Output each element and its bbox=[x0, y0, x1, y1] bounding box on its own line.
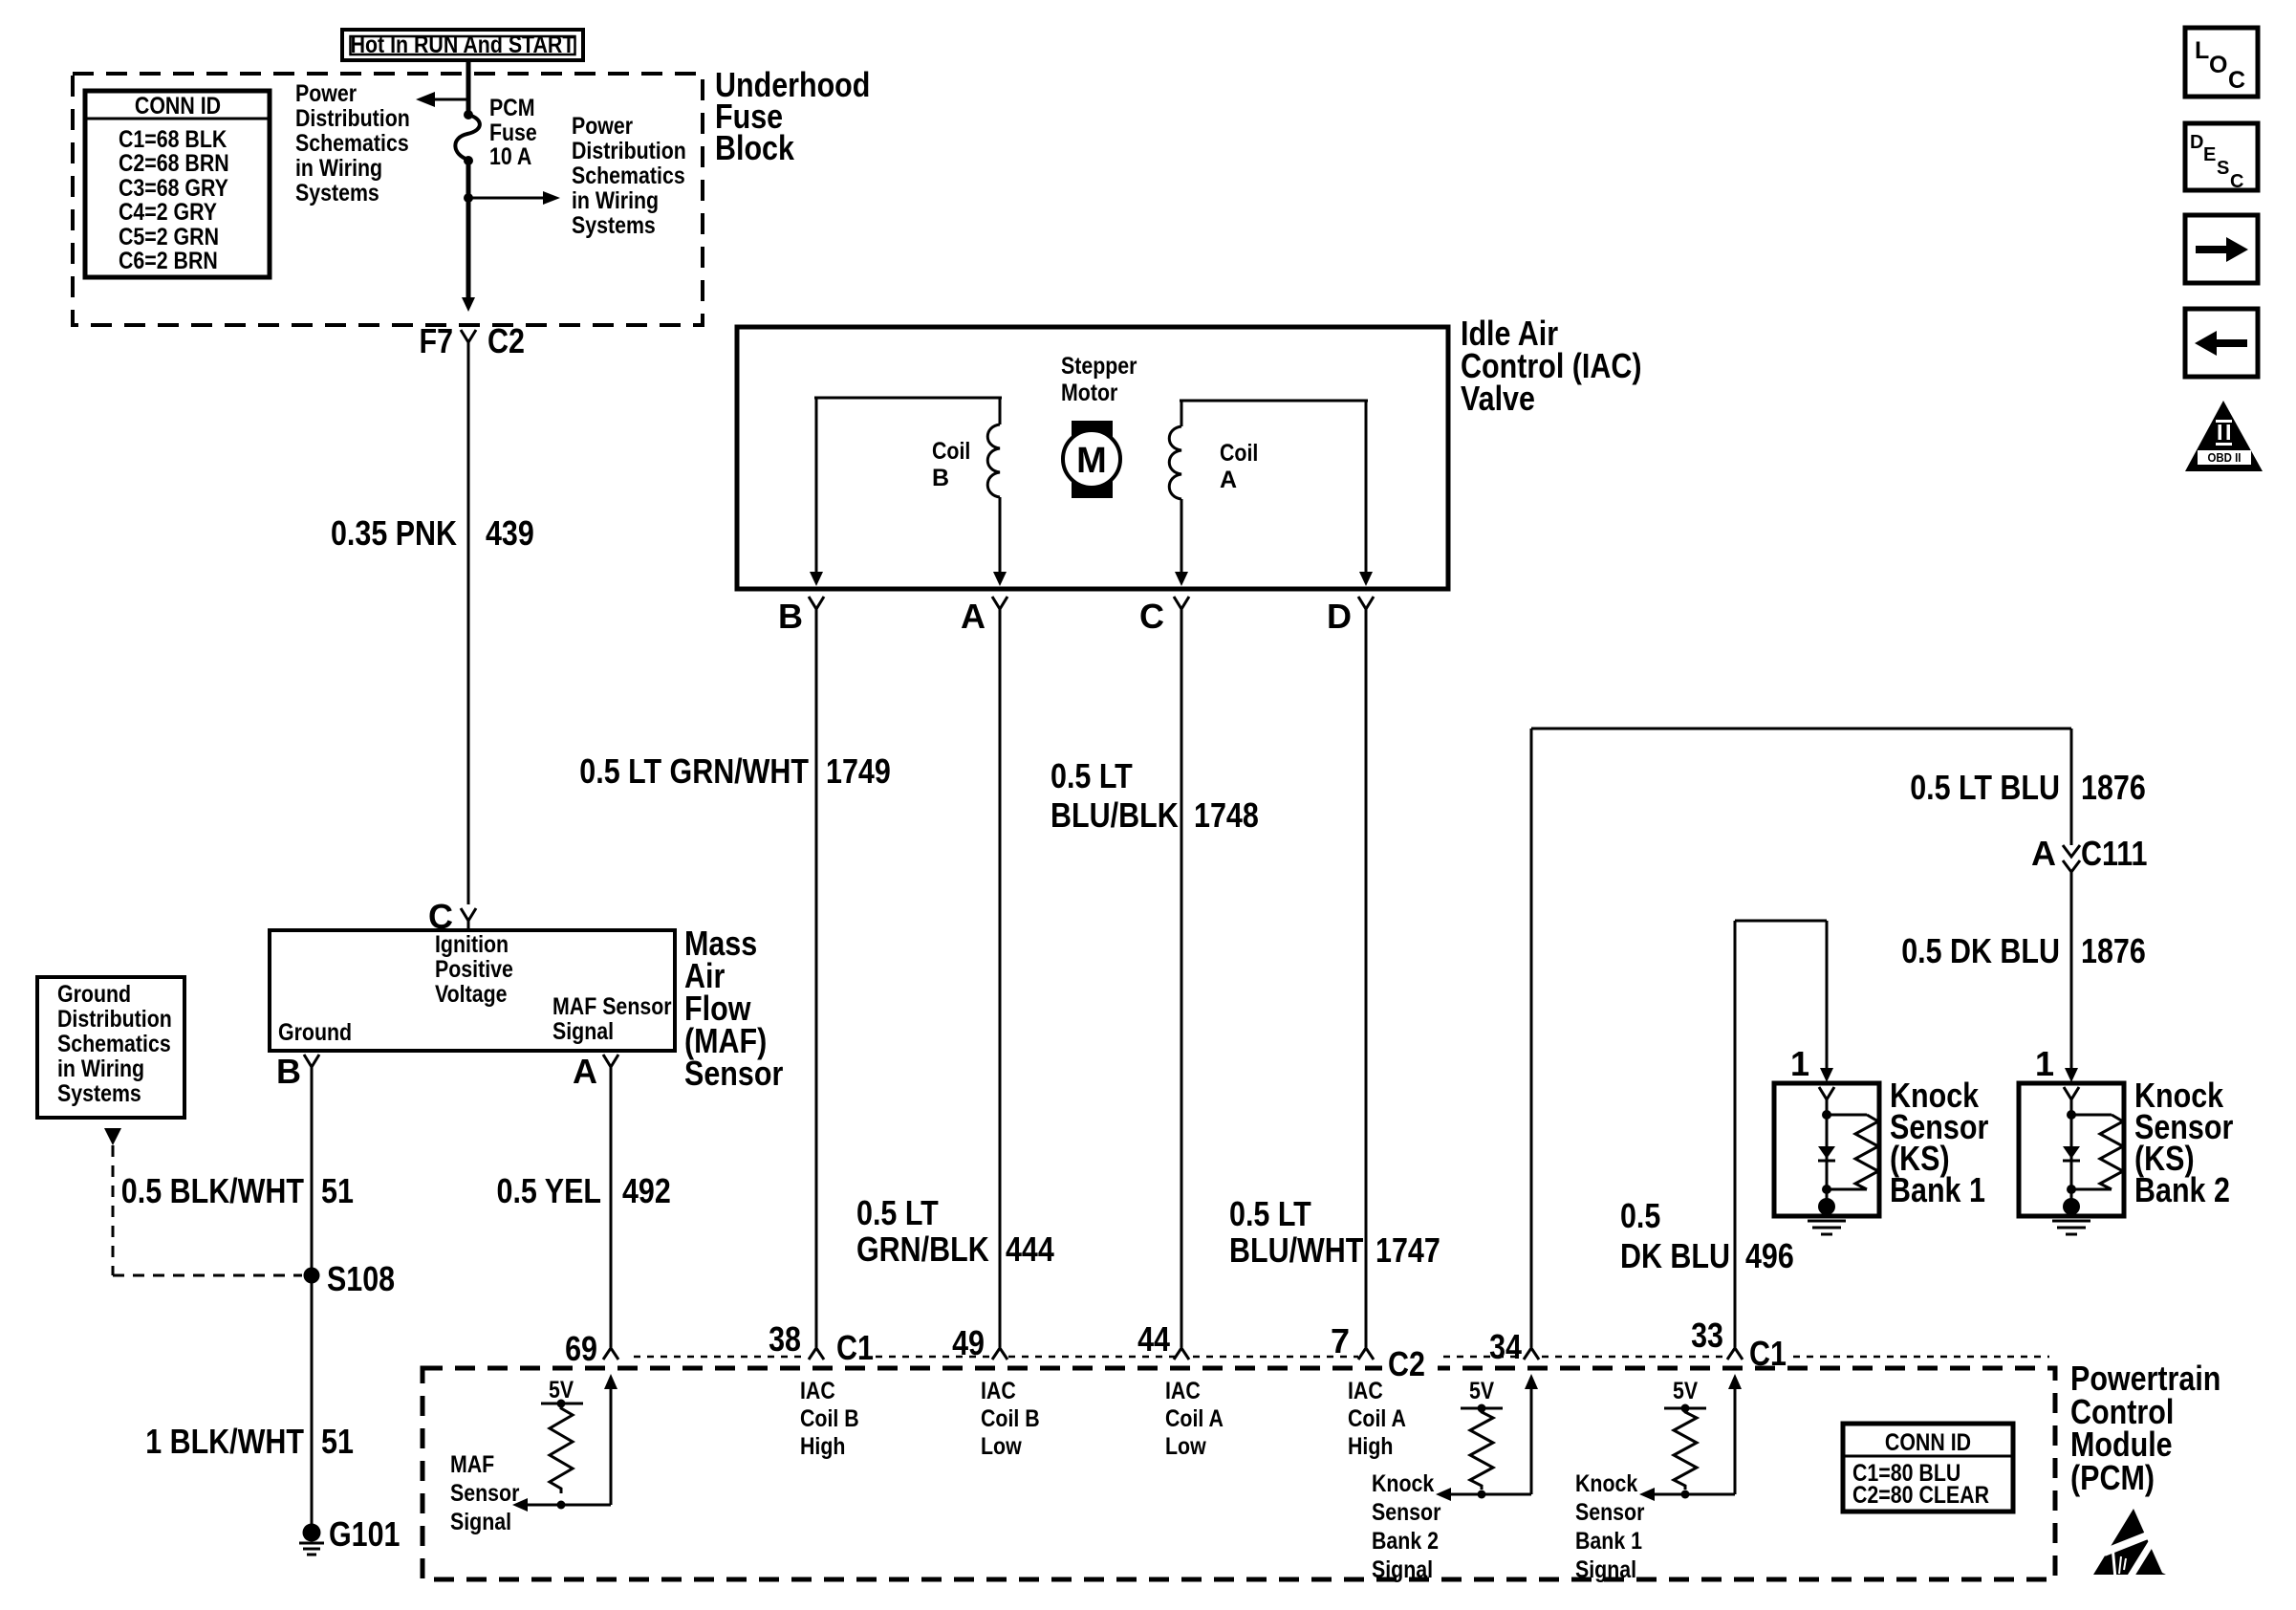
svg-text:51: 51 bbox=[321, 1171, 354, 1210]
svg-text:Systems: Systems bbox=[295, 180, 379, 207]
svg-text:High: High bbox=[1348, 1433, 1393, 1460]
label Underhood Fuse Block bbox=[715, 65, 870, 167]
svg-text:Positive: Positive bbox=[435, 956, 513, 983]
svg-text:Bank 2: Bank 2 bbox=[2134, 1170, 2230, 1209]
svg-text:A: A bbox=[573, 1052, 597, 1091]
svg-text:0.5 LT BLU: 0.5 LT BLU bbox=[1910, 768, 2060, 807]
svg-text:Voltage: Voltage bbox=[435, 981, 508, 1008]
DESC icon bbox=[2185, 123, 2258, 192]
svg-text:in Wiring: in Wiring bbox=[572, 187, 659, 214]
svg-text:Distribution: Distribution bbox=[295, 105, 410, 132]
CONN ID table (fuse block) bbox=[85, 91, 270, 277]
wire PCM 33 to KS bank 1: 0.5 DK BLU 496 bbox=[1735, 921, 1833, 1347]
wire 0.35 PNK 439 bbox=[467, 352, 470, 904]
triangle pointer bbox=[104, 1128, 121, 1145]
wire IAC B to PCM 38: 0.5 LT GRN/WHT 1749 bbox=[815, 618, 818, 1347]
wire MAF A to PCM 69: 0.5 YEL 492 bbox=[610, 1076, 613, 1347]
wire: branch left with arrow bbox=[416, 92, 468, 107]
svg-text:496: 496 bbox=[1745, 1236, 1794, 1275]
svg-text:Distribution: Distribution bbox=[572, 138, 686, 164]
svg-text:E: E bbox=[2203, 144, 2216, 165]
svg-text:1 BLK/WHT: 1 BLK/WHT bbox=[145, 1422, 304, 1461]
dashed wire to S108 bbox=[112, 1145, 115, 1275]
label Knock Sensor (KS) Bank 1 bbox=[1890, 1076, 1988, 1209]
svg-text:Valve: Valve bbox=[1461, 379, 1535, 418]
svg-text:44: 44 bbox=[1137, 1319, 1170, 1359]
svg-text:IAC: IAC bbox=[1165, 1378, 1201, 1404]
svg-text:Low: Low bbox=[981, 1433, 1022, 1460]
svg-text:439: 439 bbox=[486, 513, 534, 553]
svg-text:OBD II: OBD II bbox=[2208, 450, 2242, 465]
fuse PCM Fuse 10 A bbox=[455, 95, 537, 170]
svg-text:Bank 2: Bank 2 bbox=[1372, 1528, 1439, 1555]
svg-text:Systems: Systems bbox=[57, 1080, 141, 1107]
svg-text:Sensor: Sensor bbox=[1575, 1499, 1645, 1526]
splice S108 bbox=[304, 1268, 320, 1284]
svg-text:B: B bbox=[276, 1052, 301, 1091]
label IAC Coil A Low bbox=[1165, 1378, 1224, 1460]
svg-text:69: 69 bbox=[565, 1329, 597, 1368]
svg-text:GRN/BLK: GRN/BLK bbox=[856, 1229, 989, 1269]
ESD sensitive symbol bbox=[2093, 1509, 2166, 1579]
svg-text:in Wiring: in Wiring bbox=[295, 155, 382, 182]
svg-text:B: B bbox=[778, 597, 803, 636]
svg-text:Coil: Coil bbox=[932, 438, 970, 465]
svg-text:5V: 5V bbox=[1469, 1378, 1494, 1404]
svg-text:C5=2 GRN: C5=2 GRN bbox=[119, 224, 219, 250]
left arrow icon bbox=[2185, 309, 2258, 377]
label IAC Coil A High bbox=[1348, 1378, 1406, 1460]
svg-text:C: C bbox=[2228, 67, 2245, 94]
Underhood Fuse Block dashed box bbox=[73, 74, 703, 325]
wire: main feed from Hot box down bbox=[466, 61, 471, 114]
svg-text:0.5 LT: 0.5 LT bbox=[1229, 1194, 1311, 1233]
svg-text:0.35 PNK: 0.35 PNK bbox=[331, 513, 457, 553]
Hot In RUN And START callout box bbox=[342, 30, 583, 60]
svg-text:492: 492 bbox=[622, 1171, 671, 1210]
ground G101 bbox=[299, 1514, 401, 1555]
svg-text:Coil A: Coil A bbox=[1165, 1405, 1224, 1432]
svg-text:Fuse: Fuse bbox=[489, 120, 537, 146]
svg-text:B: B bbox=[932, 465, 949, 491]
svg-text:C1=68 BLK: C1=68 BLK bbox=[119, 126, 227, 153]
svg-text:Sensor: Sensor bbox=[684, 1054, 783, 1093]
svg-text:Signal: Signal bbox=[1372, 1556, 1433, 1583]
svg-text:D: D bbox=[1327, 597, 1352, 636]
svg-text:Power: Power bbox=[295, 80, 357, 107]
svg-text:1876: 1876 bbox=[2081, 931, 2146, 970]
svg-text:MAF Sensor: MAF Sensor bbox=[552, 993, 672, 1020]
svg-text:D: D bbox=[2190, 132, 2203, 153]
svg-text:7: 7 bbox=[1331, 1321, 1350, 1360]
OBD II icon bbox=[2185, 401, 2263, 471]
svg-text:Schematics: Schematics bbox=[572, 163, 685, 189]
label Power Distribution Schematics in Wiring Systems (left) bbox=[295, 80, 410, 207]
svg-text:MAF: MAF bbox=[450, 1451, 494, 1478]
wire IAC D to PCM 7: 0.5 LT BLU/WHT 1747 bbox=[1365, 618, 1368, 1347]
connector C into MAF bbox=[428, 897, 476, 936]
svg-text:0.5 DK BLU: 0.5 DK BLU bbox=[1901, 931, 2060, 970]
svg-text:1748: 1748 bbox=[1194, 795, 1259, 835]
knock sensor bank 1 internal circuit bbox=[1575, 1374, 1742, 1583]
svg-text:High: High bbox=[800, 1433, 845, 1460]
knock sensor KS bank 1 bbox=[1774, 1044, 1879, 1234]
pin 38 C1 bbox=[769, 1319, 874, 1367]
svg-text:0.5 BLK/WHT: 0.5 BLK/WHT bbox=[121, 1171, 304, 1210]
svg-text:Ground: Ground bbox=[278, 1019, 352, 1046]
pin 33 C1 bbox=[1691, 1316, 1787, 1373]
wire PCM 34 to KS bank 2: 0.5 LT BLU / 0.5 DK BLU 1876 bbox=[1531, 729, 2071, 1347]
svg-text:0.5: 0.5 bbox=[1620, 1196, 1660, 1235]
svg-text:49: 49 bbox=[952, 1323, 985, 1362]
connector thin dashed line C1/C2 bbox=[634, 1356, 2049, 1359]
svg-text:Sensor: Sensor bbox=[1372, 1499, 1441, 1526]
svg-text:Signal: Signal bbox=[1575, 1556, 1636, 1583]
svg-text:Signal: Signal bbox=[450, 1509, 511, 1535]
svg-text:Systems: Systems bbox=[572, 212, 656, 239]
svg-text:C2=68 BRN: C2=68 BRN bbox=[119, 150, 229, 177]
coil A bbox=[1169, 401, 1373, 586]
label Power Distribution Schematics in Wiring Systems (right) bbox=[572, 113, 686, 239]
MAF pin B connector bbox=[276, 1052, 319, 1091]
svg-text:IAC: IAC bbox=[1348, 1378, 1383, 1404]
svg-text:Coil B: Coil B bbox=[800, 1405, 859, 1432]
svg-text:C2: C2 bbox=[1388, 1344, 1425, 1383]
svg-text:Coil A: Coil A bbox=[1348, 1405, 1406, 1432]
svg-text:C2=80 CLEAR: C2=80 CLEAR bbox=[1852, 1482, 1989, 1509]
IAC valve box bbox=[737, 327, 1448, 589]
svg-text:34: 34 bbox=[1489, 1327, 1522, 1366]
svg-text:Stepper: Stepper bbox=[1061, 353, 1137, 380]
svg-text:C111: C111 bbox=[2081, 834, 2148, 873]
wire MAF B to ground: 0.5 BLK/WHT 51 bbox=[311, 1076, 314, 1526]
pin 44 bbox=[1137, 1319, 1189, 1360]
svg-text:51: 51 bbox=[321, 1422, 354, 1461]
svg-text:Bank 1: Bank 1 bbox=[1890, 1170, 1985, 1209]
svg-text:1747: 1747 bbox=[1375, 1230, 1440, 1270]
svg-text:CONN ID: CONN ID bbox=[135, 93, 221, 120]
label Mass Air Flow (MAF) Sensor bbox=[684, 924, 783, 1093]
LOC icon bbox=[2185, 28, 2258, 97]
svg-text:C1: C1 bbox=[836, 1328, 874, 1367]
knock sensor KS bank 2 bbox=[2019, 1044, 2124, 1234]
svg-text:C4=2 GRY: C4=2 GRY bbox=[119, 199, 217, 226]
svg-text:Power: Power bbox=[572, 113, 633, 140]
svg-text:1: 1 bbox=[1790, 1044, 1809, 1083]
svg-text:5V: 5V bbox=[549, 1377, 574, 1403]
wire IAC A to PCM 49: 0.5 LT GRN/BLK 444 bbox=[999, 618, 1002, 1347]
right arrow icon bbox=[2185, 215, 2258, 283]
wire: feed below fuse bbox=[466, 161, 471, 299]
svg-text:C2: C2 bbox=[487, 321, 525, 360]
MAF pin A connector bbox=[573, 1052, 618, 1091]
svg-text:F7: F7 bbox=[420, 321, 454, 360]
wire IAC C to PCM 44: 0.5 LT BLU/BLK 1748 bbox=[1180, 618, 1183, 1347]
svg-text:C: C bbox=[2230, 171, 2243, 192]
svg-text:DK BLU: DK BLU bbox=[1620, 1236, 1730, 1275]
svg-text:L: L bbox=[2195, 37, 2209, 64]
svg-text:5V: 5V bbox=[1673, 1378, 1698, 1404]
label Powertrain Control Module (PCM) bbox=[2070, 1359, 2220, 1497]
svg-text:O: O bbox=[2209, 52, 2227, 78]
wire: branch right with arrow bbox=[464, 191, 560, 205]
svg-text:C1: C1 bbox=[1749, 1334, 1787, 1373]
svg-text:0.5 LT: 0.5 LT bbox=[856, 1193, 939, 1232]
svg-text:in Wiring: in Wiring bbox=[57, 1055, 144, 1082]
PCM dashed box bbox=[422, 1368, 2055, 1579]
svg-text:33: 33 bbox=[1691, 1316, 1723, 1355]
svg-text:CONN ID: CONN ID bbox=[1885, 1429, 1971, 1456]
svg-text:1749: 1749 bbox=[826, 751, 891, 791]
svg-text:0.5 LT: 0.5 LT bbox=[1051, 756, 1133, 795]
svg-text:Knock: Knock bbox=[1575, 1470, 1637, 1497]
svg-text:Low: Low bbox=[1165, 1433, 1206, 1460]
pin 49 bbox=[952, 1323, 1007, 1362]
pin 34 bbox=[1489, 1327, 1539, 1366]
svg-text:Block: Block bbox=[715, 128, 795, 167]
svg-text:Coil: Coil bbox=[1220, 440, 1258, 467]
svg-text:38: 38 bbox=[769, 1319, 801, 1359]
pin 7 C2 bbox=[1331, 1321, 1438, 1383]
svg-text:S108: S108 bbox=[327, 1259, 395, 1298]
svg-text:Motor: Motor bbox=[1061, 380, 1118, 406]
svg-text:M: M bbox=[1076, 441, 1107, 481]
svg-text:C3=68 GRY: C3=68 GRY bbox=[119, 175, 228, 202]
svg-text:A: A bbox=[2031, 834, 2056, 873]
svg-text:C6=2 BRN: C6=2 BRN bbox=[119, 248, 218, 274]
connector C111 pin A bbox=[2031, 834, 2148, 873]
svg-text:A: A bbox=[1220, 467, 1237, 493]
svg-text:Distribution: Distribution bbox=[57, 1006, 172, 1033]
svg-text:1876: 1876 bbox=[2081, 768, 2146, 807]
label IAC Coil B Low bbox=[981, 1378, 1040, 1460]
svg-text:Ground: Ground bbox=[57, 981, 131, 1008]
CONN ID table (PCM) bbox=[1843, 1424, 2013, 1512]
svg-text:Schematics: Schematics bbox=[295, 130, 409, 157]
svg-text:A: A bbox=[961, 597, 986, 636]
svg-text:Hot In RUN And START: Hot In RUN And START bbox=[351, 32, 575, 58]
svg-text:0.5 LT GRN/WHT: 0.5 LT GRN/WHT bbox=[579, 751, 809, 791]
svg-text:(PCM): (PCM) bbox=[2070, 1458, 2155, 1497]
label Knock Sensor (KS) Bank 2 bbox=[2134, 1076, 2233, 1209]
svg-text:Sensor: Sensor bbox=[450, 1480, 520, 1507]
knock sensor bank 2 internal circuit bbox=[1372, 1374, 1538, 1583]
MAF sensor box bbox=[270, 930, 675, 1051]
label Idle Air Control (IAC) Valve bbox=[1461, 314, 1642, 418]
svg-text:Signal: Signal bbox=[552, 1018, 614, 1045]
pin 69 bbox=[565, 1329, 618, 1368]
svg-text:Coil B: Coil B bbox=[981, 1405, 1040, 1432]
MAF sensor signal internal circuit bbox=[450, 1374, 617, 1535]
coil B bbox=[810, 398, 1007, 586]
Ground Distribution box bbox=[37, 977, 184, 1118]
svg-text:BLU/BLK: BLU/BLK bbox=[1051, 795, 1179, 835]
svg-text:Schematics: Schematics bbox=[57, 1031, 171, 1057]
svg-text:10 A: 10 A bbox=[489, 143, 531, 170]
svg-text:IAC: IAC bbox=[981, 1378, 1016, 1404]
svg-text:IAC: IAC bbox=[800, 1378, 835, 1404]
connector F7 / C2 bbox=[420, 321, 525, 360]
svg-text:PCM: PCM bbox=[489, 95, 535, 121]
svg-text:1: 1 bbox=[2035, 1044, 2054, 1083]
svg-text:0.5 YEL: 0.5 YEL bbox=[497, 1171, 602, 1210]
svg-text:Ignition: Ignition bbox=[435, 931, 509, 958]
label IAC Coil B High bbox=[800, 1378, 859, 1460]
svg-text:BLU/WHT: BLU/WHT bbox=[1229, 1230, 1363, 1270]
svg-text:G101: G101 bbox=[329, 1514, 401, 1554]
svg-text:C: C bbox=[1139, 597, 1164, 636]
svg-text:Bank 1: Bank 1 bbox=[1575, 1528, 1642, 1555]
IAC pin connectors B A C D bbox=[778, 597, 1374, 636]
svg-text:444: 444 bbox=[1006, 1229, 1054, 1269]
stepper motor M bbox=[1061, 353, 1137, 498]
svg-text:Knock: Knock bbox=[1372, 1470, 1434, 1497]
svg-text:S: S bbox=[2217, 158, 2229, 179]
